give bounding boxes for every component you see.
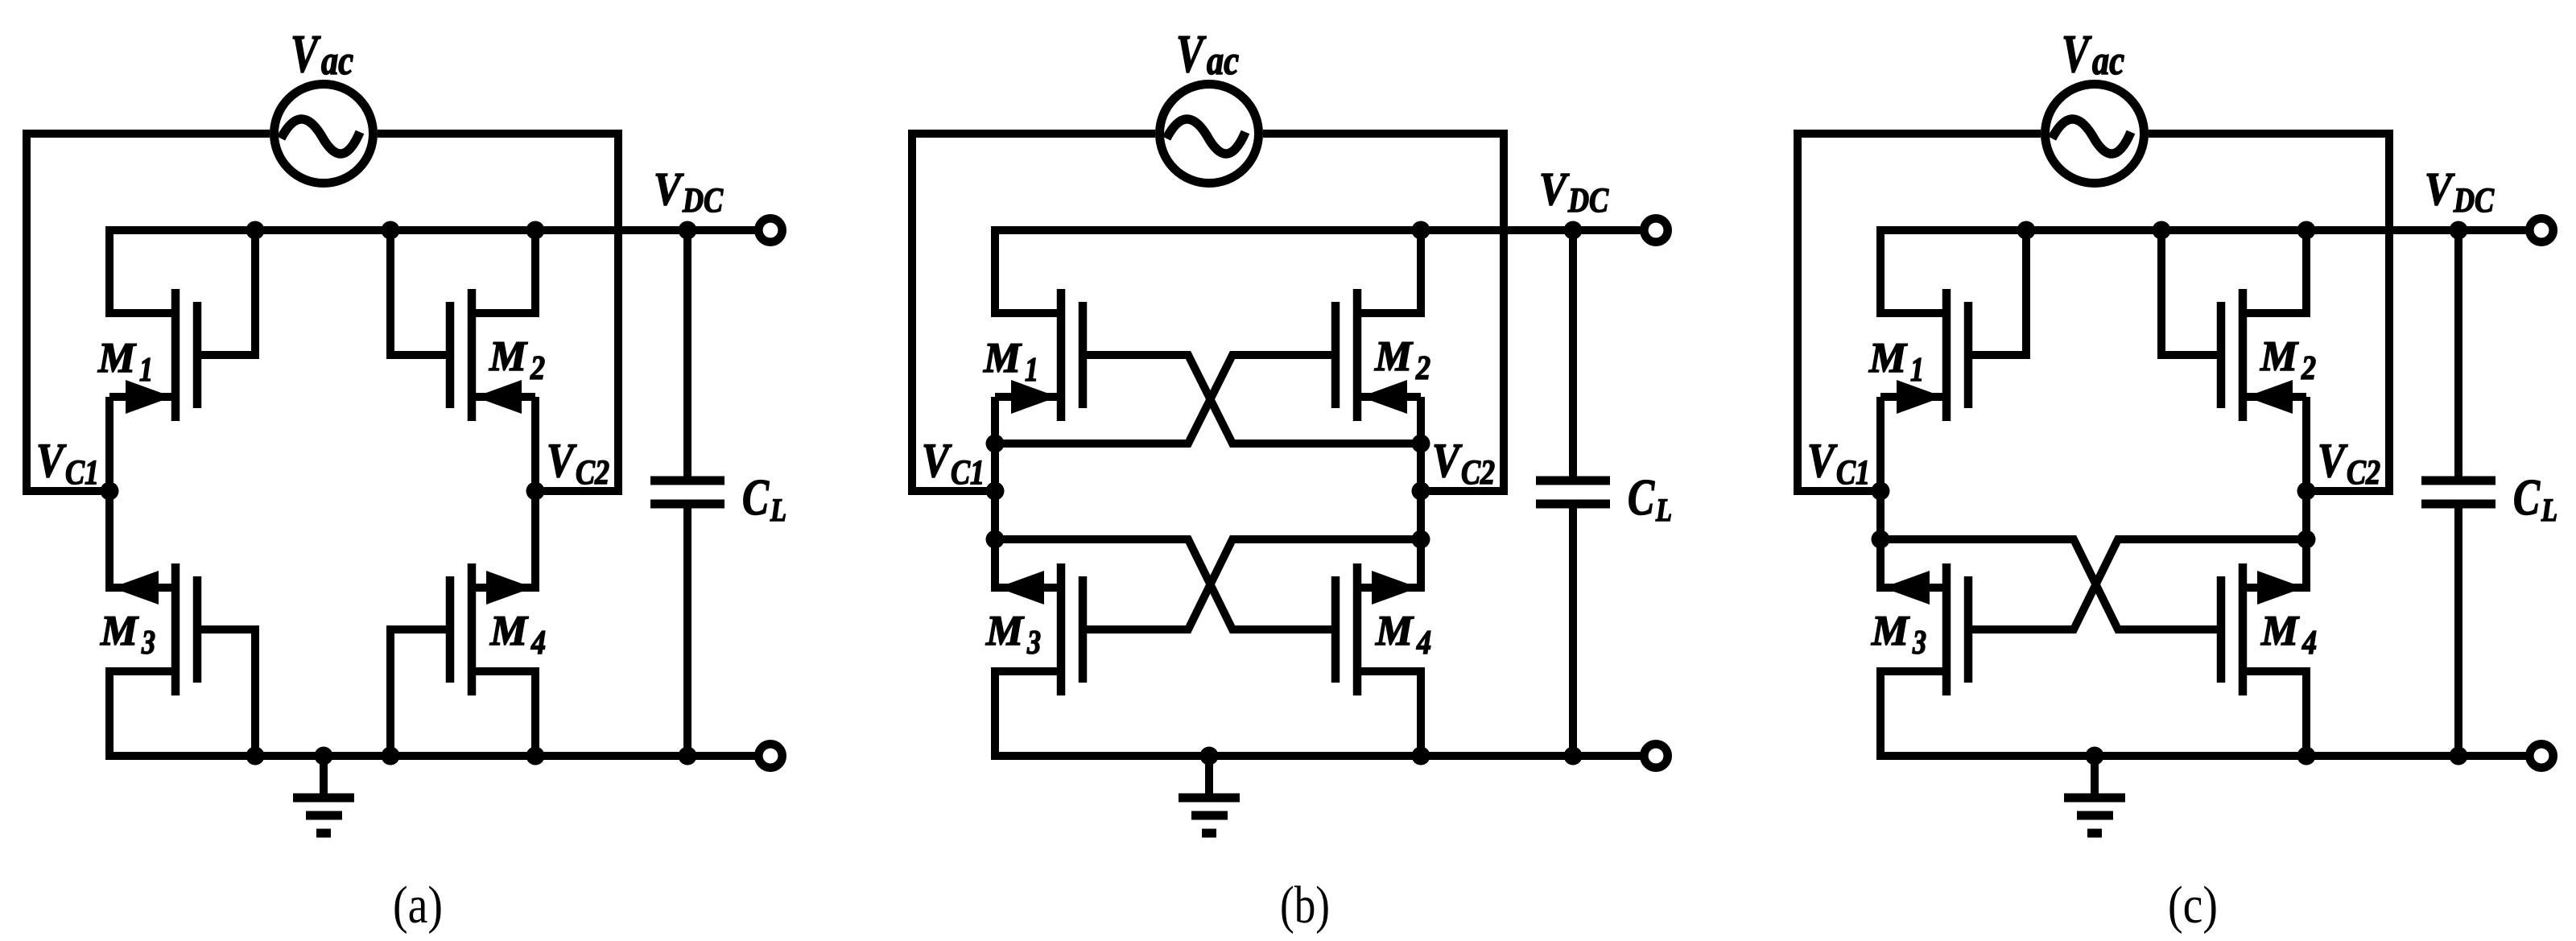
- transistor M3 channel bar: [1942, 563, 1951, 695]
- transistor M2 source wire with arrow: [472, 393, 535, 401]
- bottom rail with transistor M3 source connection: [1880, 671, 2529, 756]
- svg-text:1: 1: [1910, 352, 1924, 389]
- transistor M2 channel bar: [2239, 289, 2248, 421]
- transistor M4 source wire to bottom rail: [1357, 671, 1421, 756]
- svg-text:ac: ac: [1207, 39, 1239, 84]
- svg-text:DC: DC: [682, 182, 724, 220]
- svg-text:ac: ac: [2092, 39, 2124, 84]
- svg-text:L: L: [1655, 492, 1672, 528]
- panel (c): [1798, 24, 2557, 935]
- transistor M1 gate bar: [193, 302, 202, 408]
- transistor M4 gate bar: [2217, 576, 2226, 683]
- svg-text:M: M: [983, 335, 1022, 382]
- node VC2 junction dots: [526, 482, 545, 501]
- AC source sine wave: [1166, 119, 1245, 154]
- capacitor CL plates: [1536, 477, 1610, 485]
- svg-text:M: M: [2260, 608, 2300, 654]
- svg-text:C: C: [1628, 468, 1655, 526]
- transistor M3 gate bar: [193, 576, 202, 683]
- output terminal VDC (open circle): [1644, 218, 1667, 241]
- svg-text:V: V: [36, 434, 67, 487]
- transistor M1 gate bar: [1079, 302, 1088, 408]
- svg-text:L: L: [2541, 492, 2557, 528]
- transistor M4 drain wire with arrow from VC2: [472, 491, 535, 588]
- transistor M2 source wire with arrow: [2243, 393, 2306, 401]
- svg-text:L: L: [770, 492, 786, 528]
- svg-text:C: C: [2513, 468, 2541, 526]
- node VC2 junction dots: [2297, 482, 2316, 501]
- transistor M3 channel bar: [1057, 563, 1066, 695]
- wire: M4 gate cross-coupled to node VC1: [1880, 539, 2221, 629]
- transistor M2 drain wire to VDC rail: [472, 230, 535, 313]
- svg-text:M: M: [489, 608, 529, 654]
- AC source sine wave: [281, 119, 360, 154]
- svg-text:V: V: [291, 24, 321, 84]
- wire: node VC2 column: [2302, 397, 2310, 588]
- panel (a): [27, 24, 786, 935]
- wire: Vac left lead to node VC1: [912, 134, 1155, 491]
- svg-text:(c): (c): [2168, 876, 2218, 935]
- wire: Vac left lead to node VC1: [1798, 134, 2041, 491]
- transistor M4 drain wire with arrow from VC2: [1357, 491, 1421, 588]
- node: VDC rail junction dots: [2017, 221, 2036, 240]
- node VC2 junction dots: [1412, 435, 1430, 453]
- node VC1 junction dots: [101, 482, 119, 501]
- svg-text:3: 3: [141, 625, 155, 662]
- wire: node VC2 column: [531, 397, 539, 588]
- svg-text:ac: ac: [321, 39, 353, 84]
- output terminal bottom (open circle): [2529, 744, 2553, 767]
- capacitor CL bottom lead: [1569, 508, 1577, 756]
- svg-text:4: 4: [2301, 625, 2317, 662]
- node VC1 junction dots: [1872, 482, 1890, 501]
- svg-text:2: 2: [2301, 350, 2316, 387]
- wire: M2 gate cross-coupled to node VC1: [995, 355, 1335, 444]
- capacitor CL plates: [2421, 477, 2495, 485]
- wire: M1 gate diode-connection to VDC rail: [1968, 230, 2026, 355]
- transistor M4 gate bar: [446, 576, 455, 683]
- transistor M1 gate bar: [1964, 302, 1973, 408]
- output terminal bottom (open circle): [1644, 744, 1667, 767]
- VDC rail with transistor M1 drain connection: [995, 230, 1644, 313]
- wire: M2 gate diode-connection to VDC rail: [390, 230, 450, 355]
- wire: node VC1 column: [105, 397, 114, 588]
- svg-text:V: V: [1807, 434, 1838, 487]
- svg-text:C2: C2: [2347, 454, 2380, 492]
- svg-text:M: M: [100, 608, 139, 654]
- svg-text:V: V: [547, 434, 577, 487]
- transistor M2 gate bar: [446, 302, 455, 408]
- output terminal bottom (open circle): [758, 744, 782, 767]
- transistor M3 gate bar: [1079, 576, 1088, 683]
- transistor M3 drain wire with arrow from VC1: [109, 491, 175, 588]
- node: bottom rail junction dots: [2086, 747, 2104, 766]
- svg-text:M: M: [97, 335, 137, 382]
- wire: node VC1 column: [1876, 397, 1885, 588]
- wire: M1 gate cross-coupled to node VC2: [1083, 355, 1421, 444]
- capacitor CL bottom lead: [683, 508, 691, 756]
- wire: node VC1 column: [991, 397, 999, 588]
- svg-text:V: V: [654, 163, 684, 215]
- transistor M2 drain wire to VDC rail: [2243, 230, 2306, 313]
- svg-text:M: M: [985, 608, 1025, 654]
- svg-text:(b): (b): [1280, 876, 1330, 935]
- AC source sine wave: [2052, 119, 2131, 154]
- bottom rail with transistor M3 source connection: [995, 671, 1644, 756]
- svg-text:V: V: [2062, 24, 2092, 84]
- svg-text:4: 4: [1416, 625, 1431, 662]
- capacitor CL bottom lead: [2454, 508, 2462, 756]
- transistor M3 channel bar: [171, 563, 180, 695]
- svg-text:DC: DC: [1567, 182, 1609, 220]
- transistor M1 source wire with arrow: [1880, 393, 1946, 401]
- node: bottom rail junction dots: [1200, 747, 1219, 766]
- transistor M2 channel bar: [468, 289, 477, 421]
- transistor M1 channel bar: [1942, 289, 1951, 421]
- svg-text:V: V: [1432, 434, 1463, 487]
- svg-text:C1: C1: [1836, 454, 1870, 492]
- wire: M3 gate cross-coupled to node VC2: [1083, 539, 1421, 629]
- svg-text:V: V: [922, 434, 952, 487]
- capacitor CL top lead: [2454, 230, 2462, 477]
- VDC rail with transistor M1 drain connection: [109, 230, 758, 313]
- output terminal VDC (open circle): [758, 218, 782, 241]
- svg-text:M: M: [2260, 333, 2299, 380]
- transistor M3 gate bar: [1964, 576, 1973, 683]
- capacitor CL top lead: [683, 230, 691, 477]
- wire: M3 gate diode-connection to bottom rail: [197, 629, 255, 756]
- svg-text:C1: C1: [951, 454, 985, 492]
- svg-text:C: C: [742, 468, 770, 526]
- svg-text:V: V: [1539, 163, 1570, 215]
- node VC1 junction dots: [986, 435, 1005, 453]
- svg-text:C2: C2: [576, 454, 609, 492]
- svg-text:2: 2: [530, 350, 545, 387]
- AC source Vac circle: [2046, 85, 2145, 184]
- wire: Vac left lead to node VC1: [27, 134, 270, 491]
- VDC rail with transistor M1 drain connection: [1880, 230, 2529, 313]
- svg-text:2: 2: [1415, 350, 1430, 387]
- node: VDC rail junction dots: [1412, 221, 1430, 240]
- transistor M4 source wire to bottom rail: [472, 671, 535, 756]
- svg-text:M: M: [1375, 608, 1414, 654]
- transistor M2 gate bar: [2217, 302, 2226, 408]
- ground symbol: [1205, 756, 1213, 798]
- wire: M2 gate diode-connection to VDC rail: [2161, 230, 2221, 355]
- AC source Vac circle: [275, 85, 374, 184]
- svg-text:M: M: [1374, 333, 1414, 380]
- svg-text:1: 1: [139, 352, 153, 389]
- capacitor CL plates: [650, 477, 724, 485]
- transistor M4 channel bar: [468, 563, 477, 695]
- transistor M2 drain wire to VDC rail: [1357, 230, 1421, 313]
- transistor M4 channel bar: [1353, 563, 1362, 695]
- transistor M2 source wire with arrow: [1357, 393, 1421, 401]
- wire: Vac right lead to node VC2: [1263, 134, 1504, 491]
- svg-text:V: V: [2318, 434, 2348, 487]
- capacitor CL top lead: [1569, 230, 1577, 477]
- wire: node VC2 column: [1417, 397, 1425, 588]
- node: VDC rail junction dots: [246, 221, 265, 240]
- svg-text:3: 3: [1912, 625, 1926, 662]
- output terminal VDC (open circle): [2529, 218, 2553, 241]
- transistor M2 gate bar: [1331, 302, 1340, 408]
- svg-text:V: V: [2425, 163, 2455, 215]
- wire: M3 gate cross-coupled to node VC2: [1968, 539, 2306, 629]
- transistor M4 source wire to bottom rail: [2243, 671, 2306, 756]
- transistor M3 drain wire with arrow from VC1: [1880, 491, 1946, 588]
- transistor M1 source wire with arrow: [995, 393, 1061, 401]
- svg-text:4: 4: [530, 625, 546, 662]
- svg-text:C1: C1: [65, 454, 99, 492]
- svg-text:(a): (a): [393, 876, 443, 935]
- transistor M4 channel bar: [2239, 563, 2248, 695]
- wire: Vac right lead to node VC2: [378, 134, 618, 491]
- ground symbol: [320, 756, 328, 798]
- wire: M4 gate cross-coupled to node VC1: [995, 539, 1335, 629]
- svg-text:M: M: [1871, 608, 1910, 654]
- svg-text:M: M: [489, 333, 528, 380]
- svg-text:M: M: [1868, 335, 1908, 382]
- transistor M2 channel bar: [1353, 289, 1362, 421]
- wire: Vac right lead to node VC2: [2149, 134, 2389, 491]
- wire: M1 gate diode-connection to VDC rail: [197, 230, 255, 355]
- panel (b): [912, 24, 1672, 935]
- node: bottom rail junction dots: [246, 747, 265, 766]
- svg-text:3: 3: [1026, 625, 1041, 662]
- transistor M1 channel bar: [171, 289, 180, 421]
- transistor M1 channel bar: [1057, 289, 1066, 421]
- transistor M4 gate bar: [1331, 576, 1340, 683]
- transistor M4 drain wire with arrow from VC2: [2243, 491, 2306, 588]
- transistor M1 source wire with arrow: [109, 393, 175, 401]
- svg-text:C2: C2: [1461, 454, 1495, 492]
- ground symbol: [2091, 756, 2099, 798]
- wire: M4 gate diode-connection to bottom rail: [390, 629, 450, 756]
- svg-text:DC: DC: [2453, 182, 2495, 220]
- svg-text:V: V: [1176, 24, 1207, 84]
- svg-text:1: 1: [1025, 352, 1038, 389]
- transistor M3 drain wire with arrow from VC1: [995, 491, 1061, 588]
- AC source Vac circle: [1160, 85, 1259, 184]
- bottom rail with transistor M3 source connection: [109, 671, 758, 756]
